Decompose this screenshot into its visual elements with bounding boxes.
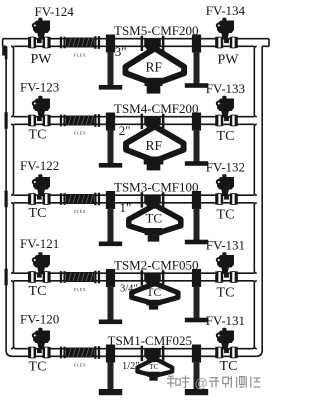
svg-text:FV-121: FV-121 [20, 236, 59, 251]
svg-text:TSM1-CMF025: TSM1-CMF025 [108, 333, 193, 348]
svg-text:3": 3" [115, 44, 127, 59]
svg-text:FV-131: FV-131 [206, 313, 245, 328]
weld tick left header [5, 269, 8, 286]
svg-text:TSM5-CMF200: TSM5-CMF200 [114, 23, 199, 38]
left header pipe [6, 46, 12, 356]
flow meter TSM4-CMF200 [141, 114, 144, 129]
pipe support post left row 5 [106, 345, 115, 363]
valve FV-132 [217, 177, 234, 190]
pipe support post left row 1 [106, 35, 115, 53]
right header pipe [256, 46, 262, 356]
pipe support post right row 4 [192, 269, 201, 287]
svg-text:FV-120: FV-120 [20, 311, 59, 326]
flex connector row 5 [60, 347, 62, 359]
weld tick left header [5, 191, 8, 208]
valve FV-123 [28, 96, 51, 126]
flow meter TSM5-CMF200 [141, 36, 144, 51]
flex connector row 2 [60, 115, 62, 127]
valve FV-124 [28, 18, 51, 48]
svg-text:TC: TC [29, 359, 47, 374]
pipe support post right row 1 [192, 35, 201, 53]
svg-text:FV-131: FV-131 [206, 238, 245, 253]
svg-text:TC: TC [220, 359, 238, 374]
valve FV-121 [28, 252, 51, 282]
svg-text:TC: TC [146, 287, 161, 299]
svg-text:FV-122: FV-122 [20, 158, 59, 173]
svg-text:@: @ [195, 376, 208, 391]
weld tick left header [5, 112, 8, 129]
svg-text:FV-132: FV-132 [206, 160, 245, 175]
valve FV-133 [217, 99, 234, 112]
watermark zhihu [167, 376, 260, 388]
svg-text:TSM2-CMF050: TSM2-CMF050 [114, 258, 199, 273]
svg-text:FLEX: FLEX [74, 362, 86, 367]
weld tick left header row1 [2, 46, 5, 56]
svg-text:TC: TC [217, 129, 235, 144]
svg-text:FV-133: FV-133 [206, 81, 245, 96]
svg-text:FV-123: FV-123 [20, 79, 59, 94]
svg-text:3/4": 3/4" [120, 284, 138, 295]
svg-text:TC: TC [29, 127, 47, 142]
svg-text:TC: TC [217, 207, 235, 222]
svg-text:TSM4-CMF200: TSM4-CMF200 [114, 101, 199, 116]
pipe support post left row 3 [106, 191, 115, 209]
svg-text:RF: RF [146, 138, 163, 153]
svg-text:TC: TC [145, 211, 162, 226]
svg-text:TC: TC [29, 284, 47, 299]
flex connector row 1 [60, 37, 62, 49]
wire row 1 pipe [3, 38, 269, 40]
pipe support post left row 4 [106, 269, 115, 287]
flex connector row 3 [60, 193, 62, 205]
svg-text:TC: TC [149, 363, 158, 371]
flow meter TSM3-CMF100 [141, 192, 144, 207]
svg-text:FLEX: FLEX [74, 287, 86, 292]
pipe support post right row 2 [192, 113, 201, 131]
valve FV-131 [217, 331, 234, 344]
wire row 3 pipe [14, 194, 255, 196]
valve FV-120 [28, 328, 51, 358]
svg-text:FLEX: FLEX [74, 52, 86, 57]
valve FV-131 [217, 255, 234, 268]
svg-text:TC: TC [29, 206, 47, 221]
svg-text:RF: RF [146, 60, 163, 75]
pipe support post right row 5 [192, 345, 201, 363]
valve FV-134 [217, 21, 234, 34]
flex connector row 4 [60, 271, 62, 283]
pipe support post right row 3 [192, 191, 201, 209]
svg-text:TSM3-CMF100: TSM3-CMF100 [114, 180, 199, 195]
wire row 5 pipe [12, 355, 256, 357]
svg-text:FV-134: FV-134 [206, 3, 246, 18]
svg-text:FLEX: FLEX [74, 209, 86, 214]
svg-text:2": 2" [119, 123, 131, 138]
svg-text:1": 1" [120, 200, 132, 215]
pipe support post left row 2 [106, 113, 115, 131]
svg-text:PW: PW [218, 53, 240, 68]
valve FV-122 [28, 174, 51, 204]
svg-text:TC: TC [217, 285, 235, 300]
wire row 4 pipe [14, 272, 255, 274]
flow meter TSM2-CMF050 [141, 270, 144, 285]
svg-text:FLEX: FLEX [74, 130, 86, 135]
svg-text:1/2": 1/2" [122, 361, 140, 372]
svg-text:PW: PW [31, 52, 53, 67]
svg-text:FV-124: FV-124 [35, 4, 75, 19]
flow meter TSM1-CMF025 [141, 346, 144, 361]
wire row 2 pipe [14, 116, 255, 118]
